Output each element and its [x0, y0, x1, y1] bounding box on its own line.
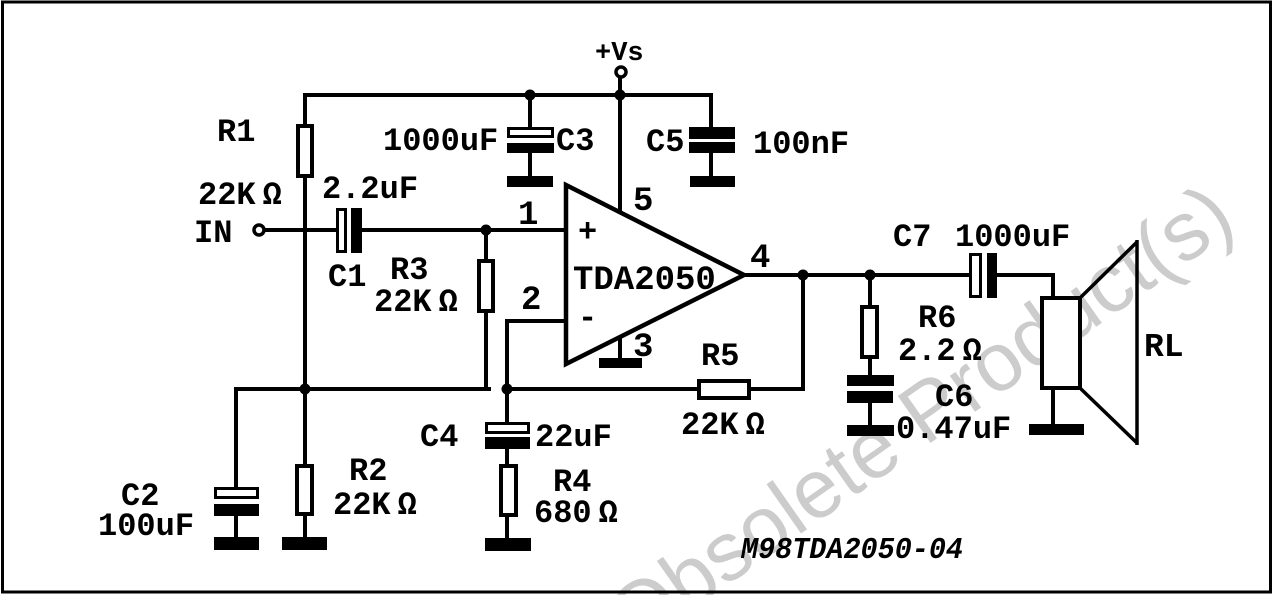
value 1000uF C3: [383, 123, 498, 160]
capacitor C5 plates: [689, 127, 735, 153]
label R4: [553, 464, 591, 501]
supply terminal +Vs: [616, 67, 626, 77]
pin 3: [633, 329, 653, 367]
op-amp minus input mark: [578, 300, 597, 337]
wire C4 to R4 to ground: [505, 447, 509, 542]
ground under C5: [690, 176, 735, 187]
wire pin 2 step horizontal: [505, 319, 568, 323]
svg-text:1000uF: 1000uF: [383, 123, 498, 160]
junction node +Vs rail: [615, 90, 626, 101]
ground under C3: [507, 176, 553, 187]
wire pin 3 to ground: [618, 330, 622, 361]
svg-text:2.2uF: 2.2uF: [322, 171, 418, 208]
svg-text:100uF: 100uF: [98, 508, 194, 545]
label +Vs: [595, 39, 644, 69]
svg-text:22KΩ: 22KΩ: [198, 177, 282, 214]
junction node output / feedback: [798, 270, 809, 281]
svg-text:C4: C4: [420, 419, 458, 456]
svg-text:IN: IN: [194, 215, 232, 252]
ground under R2: [282, 537, 327, 550]
value 22KOhm R3: [374, 284, 458, 321]
junction node C3 top: [525, 90, 536, 101]
label R1: [217, 114, 255, 151]
svg-text:2.2Ω: 2.2Ω: [898, 333, 982, 370]
resistor R2 body: [295, 464, 314, 516]
wire pin 5 supply: [618, 78, 622, 218]
op-amp U1 TDA2050 triangle: [566, 185, 744, 364]
label C4: [420, 419, 458, 456]
value 22uF C4: [535, 419, 612, 456]
wire pin 2 vertical: [505, 319, 509, 425]
svg-text:100nF: 100nF: [753, 126, 849, 163]
pin 5: [633, 183, 653, 221]
capacitor C6 plates: [847, 375, 894, 403]
svg-text:+: +: [578, 214, 597, 251]
svg-text:TDA2050: TDA2050: [573, 262, 716, 300]
wire R1-R2 vertical bias line: [303, 93, 307, 540]
pin 1: [518, 197, 538, 235]
watermark Obsolete Product(s): [591, 166, 1249, 595]
resistor R5 body: [697, 379, 751, 400]
pin 4: [750, 240, 770, 278]
svg-text:-: -: [578, 300, 597, 337]
svg-text:C5: C5: [646, 124, 684, 161]
svg-text:R2: R2: [349, 453, 387, 490]
capacitor C2 plates: [214, 487, 259, 516]
label R3: [390, 252, 428, 289]
wire output pin 4 to C7: [740, 273, 970, 277]
label IN: [194, 215, 232, 252]
svg-text:C1: C1: [328, 259, 366, 296]
wire R6 branch lead: [868, 275, 872, 378]
junction node pin 2 / C4: [502, 384, 513, 395]
wire C1 to pin 1: [360, 228, 568, 232]
value 100uF C2: [98, 508, 194, 545]
svg-text:R6: R6: [918, 300, 956, 337]
ground under C6: [847, 425, 894, 436]
svg-text:680Ω: 680Ω: [534, 495, 618, 532]
label C6: [935, 379, 973, 416]
wire C2 lower lead to ground: [234, 512, 238, 542]
label R6: [918, 300, 956, 337]
wire speaker bottom lead to ground: [1051, 387, 1055, 427]
capacitor C4 plates: [485, 422, 530, 449]
value 22KOhm R2: [333, 487, 417, 524]
svg-text:C3: C3: [556, 123, 594, 160]
document number M98TDA2050-04: [740, 533, 963, 568]
label RL load: [1144, 329, 1184, 366]
svg-text:R1: R1: [217, 114, 255, 151]
value 22KOhm R5: [681, 407, 765, 444]
capacitor C3 plates: [507, 127, 554, 153]
junction node pin 1 / R3: [481, 225, 492, 236]
label R2: [349, 453, 387, 490]
resistor R4 body: [499, 464, 518, 517]
label C7: [893, 219, 931, 256]
svg-text:22uF: 22uF: [535, 419, 612, 456]
svg-text:C7: C7: [893, 219, 931, 256]
svg-text:4: 4: [750, 240, 770, 278]
wire C3 upper lead: [528, 95, 532, 130]
value 2.2uF C1: [322, 171, 418, 208]
svg-text:M98TDA2050-04: M98TDA2050-04: [740, 533, 963, 568]
label C1: [328, 259, 366, 296]
ground under C2: [214, 537, 259, 550]
wire feedback horizontal to R5: [505, 387, 805, 391]
value 2.2Ohm R6: [898, 333, 982, 370]
op-amp plus input mark: [578, 214, 597, 251]
svg-text:22KΩ: 22KΩ: [333, 487, 417, 524]
value 1000uF C7: [955, 219, 1070, 256]
svg-text:3: 3: [633, 329, 653, 367]
resistor R3 body: [477, 259, 495, 313]
input terminal IN: [254, 225, 264, 235]
capacitor C1 plates: [336, 208, 362, 253]
wire C2 branch upper lead: [234, 387, 238, 490]
wire R3 vertical lead: [484, 230, 488, 391]
svg-text:+Vs: +Vs: [595, 39, 644, 69]
wire top supply rail: [303, 93, 713, 97]
svg-text:R5: R5: [701, 338, 739, 375]
wire feedback vertical to output: [801, 275, 805, 391]
speaker RL symbol: [1040, 240, 1137, 445]
svg-text:22KΩ: 22KΩ: [681, 407, 765, 444]
capacitor C7 plates: [969, 253, 997, 298]
wire bias node horizontal: [234, 387, 491, 391]
wire C6 lower lead to ground: [868, 401, 872, 428]
op-amp label TDA2050: [573, 262, 716, 300]
junction node bias R1 R2: [300, 384, 311, 395]
wire C3 lower lead: [528, 150, 532, 179]
label R5: [701, 338, 739, 375]
svg-text:0.47uF: 0.47uF: [896, 411, 1011, 448]
wire C5 upper lead: [709, 93, 713, 129]
ground under R4: [485, 538, 531, 551]
resistor R6 body: [860, 305, 879, 359]
value 680Ohm R4: [534, 495, 618, 532]
resistor R1 body: [296, 124, 314, 178]
svg-text:1: 1: [518, 197, 538, 235]
svg-text:1000uF: 1000uF: [955, 219, 1070, 256]
label C2: [121, 478, 159, 515]
svg-text:5: 5: [633, 183, 653, 221]
label C5: [646, 124, 684, 161]
wire C5 lower lead: [709, 151, 713, 179]
value 22KOhm R1: [198, 177, 282, 214]
junction node output / R6: [865, 270, 876, 281]
wire IN to C1: [264, 228, 338, 232]
wire speaker top lead: [1051, 273, 1055, 299]
svg-text:22KΩ: 22KΩ: [374, 284, 458, 321]
svg-text:RL: RL: [1144, 329, 1184, 366]
ground at pin 3: [599, 358, 642, 368]
value 0.47uF C6: [896, 411, 1011, 448]
ground under speaker: [1029, 424, 1084, 435]
wire C7 to speaker corner: [995, 273, 1055, 277]
svg-text:2: 2: [521, 282, 541, 320]
label C3: [556, 123, 594, 160]
value 100nF C5: [753, 126, 849, 163]
pin 2: [521, 282, 541, 320]
